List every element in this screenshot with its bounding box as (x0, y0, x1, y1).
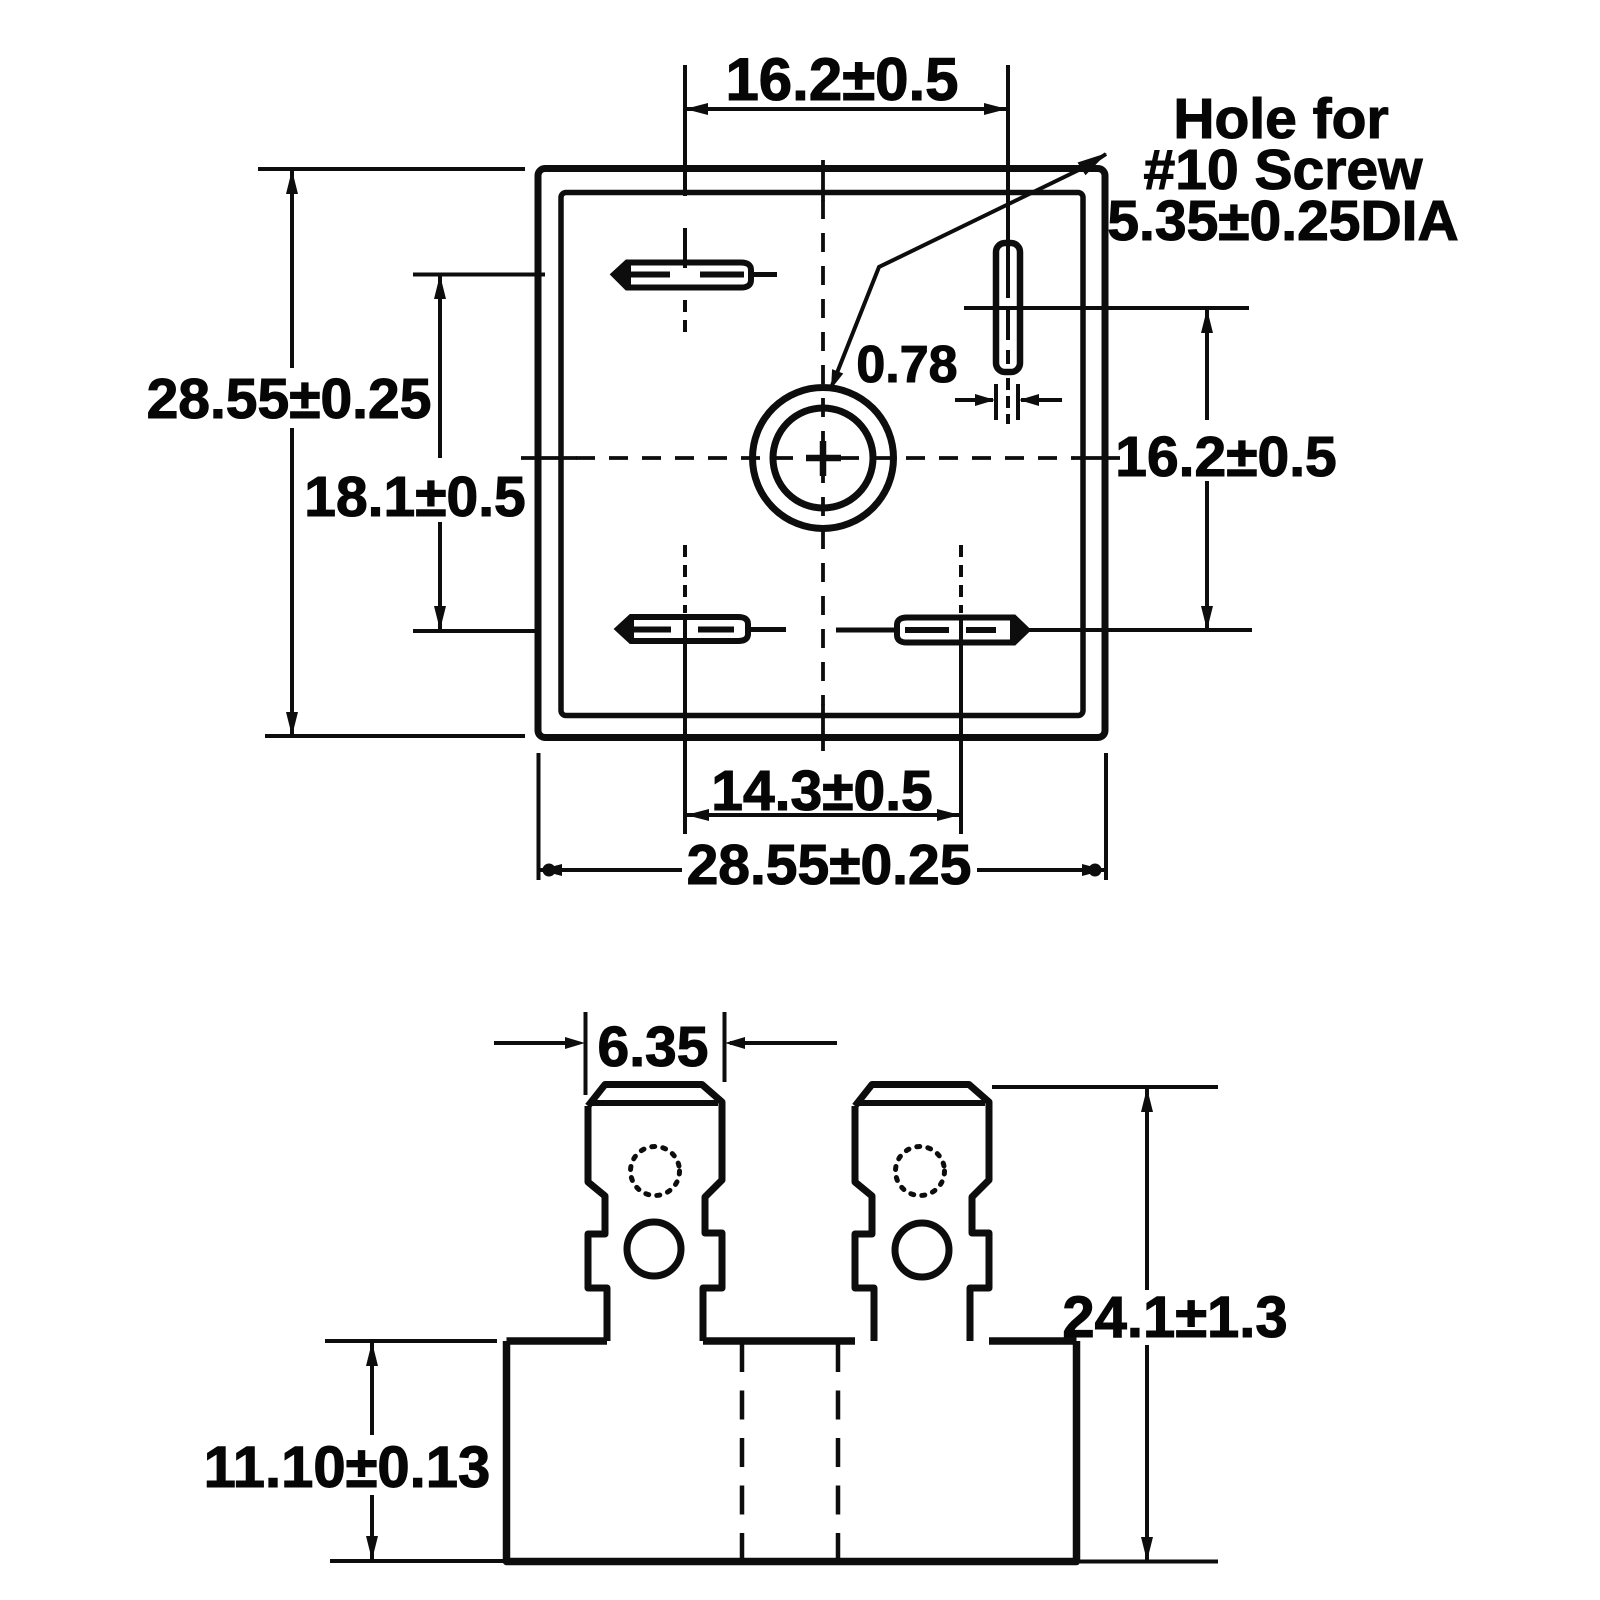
svg-text:0.78: 0.78 (856, 336, 957, 394)
svg-text:14.3±0.5: 14.3±0.5 (711, 759, 932, 823)
terminal slot bottom-right slit (905, 627, 996, 633)
terminal slot top-left slit (627, 272, 744, 278)
extension line screw slot to top dim (1006, 65, 1010, 298)
terminal slot bottom-left tip fill (617, 616, 634, 642)
extension line 24.1 bottom (1080, 1560, 1218, 1564)
arrow 28.55 left top (286, 170, 298, 194)
mounting hole inner circle (773, 408, 873, 508)
dimension line 16.2 right (1205, 310, 1209, 629)
dimension line 6.35 (494, 1041, 837, 1045)
extension line 6.35 left (584, 1012, 588, 1095)
left tab upper hole (hidden, dotted) (631, 1147, 680, 1196)
extension line bottom edge left (265, 734, 525, 738)
terminal slot bottom-left center line (683, 545, 687, 652)
arrow 28.55 bottom right (1082, 864, 1105, 876)
leader arrowhead top (1078, 153, 1108, 175)
right tab chamfer cap line (859, 1100, 985, 1106)
arrow 16.2 top right (984, 103, 1007, 115)
hole center cross (806, 441, 841, 476)
dimension line 28.55 left (290, 171, 294, 735)
svg-text:24.1±1.3: 24.1±1.3 (1062, 1285, 1287, 1350)
dimension line 18.1 (438, 276, 442, 630)
terminal slot top-left center line (683, 228, 687, 332)
left terminal tab outline (side view) (588, 1085, 722, 1342)
dimension line 28.55 bottom (539, 868, 1105, 872)
arrow 0.78 right (1019, 394, 1039, 406)
arrow 28.55 bottom left (539, 864, 562, 876)
arrow 24.1 bottom (1141, 1537, 1153, 1561)
terminal slot bottom-left outline (618, 617, 748, 641)
mounting hole outer circle (753, 388, 894, 529)
terminal slot top-left right stub (751, 272, 777, 277)
svg-text:18.1±0.5: 18.1±0.5 (304, 465, 525, 529)
arrow 6.35 left (565, 1037, 585, 1049)
inner body outline (top view) (561, 193, 1083, 716)
extension line 11.10 bottom (330, 1559, 504, 1563)
arrow 18.1 bottom (434, 606, 446, 630)
terminal slot bottom-right left stub (836, 628, 897, 633)
extension line top-left slot to top dim (683, 65, 687, 196)
arrow 14.3 right (937, 809, 960, 821)
arrow 11.10 top (366, 1342, 378, 1366)
dimension 0.78 ticks (996, 384, 1018, 420)
arrow 16.2 top left (685, 103, 708, 115)
arrow 16.2 right top (1201, 309, 1213, 333)
left tab chamfer cap line (592, 1100, 718, 1106)
extension line 11.10 top (325, 1339, 497, 1343)
terminal slot bottom-left right stub (748, 627, 786, 632)
extension line 6.35 right (723, 1012, 727, 1082)
screw slot center line (1006, 306, 1010, 424)
leader arrowhead at hole (831, 369, 843, 389)
dimension 0.78 arrow lines (955, 398, 1062, 402)
svg-text:16.2±0.5: 16.2±0.5 (1115, 425, 1336, 489)
extension line 16.2 right top (964, 306, 1249, 310)
extension line top edge left (258, 167, 525, 171)
extension line 24.1 top (992, 1085, 1218, 1089)
extension line 14.3 right (959, 652, 963, 834)
base hidden line left (740, 1343, 745, 1561)
extension line 16.2 right bottom (1027, 628, 1252, 632)
arrow 24.1 top (1141, 1088, 1153, 1112)
arrow 14.3 left (686, 809, 709, 821)
svg-text:16.2±0.5: 16.2±0.5 (725, 46, 958, 113)
dimension line 16.2 top (685, 107, 1007, 111)
terminal slot top-left tip fill (613, 262, 631, 288)
dimension line 11.10 (370, 1343, 374, 1559)
outer body outline (top view) (538, 169, 1105, 738)
extension line 28.55 bottom left (537, 753, 541, 880)
vertical center line (top view) (821, 200, 825, 705)
terminal slot bottom-right tip fill (1010, 618, 1028, 643)
arrow 16.2 right bottom (1201, 606, 1213, 630)
arrow 6.35 right (725, 1037, 745, 1049)
right tab lower hole (895, 1223, 949, 1277)
dimension line 14.3 (686, 813, 960, 817)
body base outline (side view) (507, 1341, 1077, 1562)
svg-text:28.55±0.25: 28.55±0.25 (147, 367, 432, 431)
arrow 18.1 top (434, 275, 446, 299)
terminal slot bottom-right outline (897, 618, 1027, 643)
extension line 28.55 bottom right (1104, 753, 1108, 880)
terminal slot bottom-left slit (630, 627, 734, 633)
svg-text:5.35±0.25DIA: 5.35±0.25DIA (1107, 189, 1458, 253)
screw hole slot (vertical, top-right) (996, 243, 1020, 372)
left tab lower hole (627, 1222, 681, 1276)
arrow 11.10 bottom (366, 1536, 378, 1560)
extension line 18.1 bottom (413, 629, 539, 633)
dimension line 24.1 (1145, 1089, 1149, 1560)
svg-text:11.10±0.13: 11.10±0.13 (204, 1435, 491, 1500)
extension line 18.1 top (413, 273, 545, 277)
leader line to screw hole (831, 154, 1106, 388)
right terminal tab outline (side view) (855, 1085, 989, 1342)
right tab upper hole (hidden, dotted) (896, 1147, 945, 1196)
horizontal center line (top view) (576, 456, 1074, 460)
arrow 0.78 left (975, 394, 995, 406)
arrow 28.55 left bottom (286, 712, 298, 736)
base hidden line right (836, 1343, 841, 1561)
svg-text:6.35: 6.35 (598, 1015, 709, 1079)
terminal slot bottom-right center line (959, 545, 963, 652)
extension line 14.3 left (683, 652, 687, 834)
svg-text:28.55±0.25: 28.55±0.25 (687, 833, 972, 897)
terminal slot top-left outline (614, 263, 751, 288)
